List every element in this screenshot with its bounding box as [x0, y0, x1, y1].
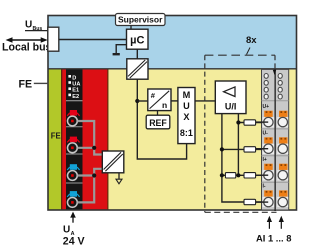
terminal separators left strip [66, 126, 83, 128]
svg-text:FE: FE [19, 79, 33, 91]
svg-text:Supervisor: Supervisor [118, 15, 163, 25]
gray strip group seams [262, 100, 289, 102]
terminal group I- [263, 184, 289, 208]
svg-text:E1: E1 [72, 88, 79, 94]
resistor R-I+b [244, 173, 256, 178]
gray strip seam [274, 69, 276, 210]
wire isolator2 to earth arrow [118, 173, 120, 180]
isolator 2 (supply isolation) [102, 151, 124, 173]
terminal 1.2 screw [68, 143, 78, 153]
A/D converter [148, 89, 171, 111]
svg-text:U: U [25, 20, 32, 31]
wire U- [222, 148, 263, 150]
gray strip small contacts col1 [264, 74, 268, 100]
ground stub of uC [116, 45, 126, 54]
wire I+ [222, 174, 263, 176]
right terminal strip (gray) [262, 69, 289, 210]
wire I- [244, 201, 263, 203]
terminal 1.1 clamp [67, 110, 79, 116]
wire isolator1 down [137, 79, 186, 159]
node I+ b [236, 173, 240, 177]
supervisor box [116, 14, 166, 26]
svg-text:D: D [72, 75, 76, 81]
terminal 2.2 clamp [67, 191, 79, 197]
terminal group I+ [263, 157, 289, 181]
resistor R-U- [244, 147, 256, 152]
svg-text:I+: I+ [263, 157, 267, 163]
U_Bus underline wire [25, 30, 49, 32]
svg-text:U-: U- [263, 130, 269, 136]
svg-text:REF: REF [149, 118, 167, 128]
resistor R-I- [244, 199, 256, 204]
FE strip (green) [48, 69, 61, 210]
gray strip small contacts col2 [278, 74, 282, 100]
svg-text:U+: U+ [263, 104, 270, 110]
svg-text:n: n [162, 100, 167, 110]
wire MUX to U/I [195, 100, 215, 102]
module body: analog section (yellow) [48, 69, 297, 210]
8x leader line [247, 48, 251, 55]
node sensor1 [92, 146, 96, 150]
wire tip I+ into terminal [256, 174, 269, 176]
8x dashed group box [205, 54, 275, 56]
module outline [48, 16, 297, 211]
wire terminal1.1 [78, 121, 95, 148]
svg-text:AI 1 ... 8: AI 1 ... 8 [256, 233, 291, 244]
resistor R-I+a [225, 173, 235, 178]
wire ADC to MUX [171, 100, 178, 102]
FE leader line [34, 82, 49, 84]
terminal 1.2 clamp [67, 137, 79, 143]
LED E1 [68, 87, 71, 90]
wire U+ [238, 122, 262, 124]
green/red boundary line [61, 69, 63, 210]
LED panel separator [66, 100, 83, 102]
LED E2 [68, 94, 71, 97]
LED D [68, 75, 71, 78]
svg-text:UA: UA [72, 82, 80, 88]
wire tip U+ into terminal [256, 121, 269, 123]
terminal 2.1 clamp [67, 164, 79, 170]
REF box [146, 115, 170, 129]
node sensor2 [92, 173, 96, 177]
svg-text:µC: µC [130, 35, 144, 47]
node U+ [236, 120, 240, 124]
red/yellow boundary line [107, 69, 109, 210]
terminal 1.1 screw [68, 116, 78, 126]
LED UA [68, 81, 71, 84]
local bus arrow [9, 39, 45, 41]
wire terminal2.1 to isolator2 [78, 169, 103, 176]
dashed line arrow mark [273, 70, 276, 75]
module body: bus section (blue) [48, 16, 297, 69]
UA supply arrow [72, 217, 74, 223]
isolator 1 (electrical isolation) [127, 59, 148, 79]
wire ADC to REF [157, 111, 159, 116]
AI input arrow 1 [268, 222, 270, 229]
AI input arrow 2 [280, 222, 282, 229]
node ADC branch [135, 99, 139, 103]
MUX 8:1 [178, 88, 195, 144]
terminal 2.2 screw [68, 198, 78, 208]
svg-text:8x: 8x [246, 35, 257, 46]
wire U/I right leg down [237, 114, 239, 176]
node I+ a [220, 173, 224, 177]
svg-text:E2: E2 [72, 94, 79, 100]
wire node to ADC [137, 100, 148, 102]
resistor R-U+ [244, 120, 256, 125]
op uC U1 [127, 29, 149, 49]
svg-text:8:1: 8:1 [180, 128, 193, 138]
wire U/I left leg down [222, 114, 244, 202]
wire tip I- into terminal [256, 201, 269, 203]
wire local bus to uC [59, 39, 127, 41]
svg-text:24 V: 24 V [63, 236, 85, 247]
svg-text:U: U [183, 101, 190, 111]
wire tip U- into terminal [256, 148, 269, 150]
svg-text:Local bus: Local bus [2, 42, 52, 54]
terminal group U+ [263, 104, 289, 128]
wire terminal2.2 [78, 176, 95, 203]
earth arrow [116, 179, 122, 184]
svg-text:U: U [63, 225, 70, 236]
8x box right edge through terminal strip [274, 69, 276, 211]
svg-text:X: X [183, 112, 190, 122]
amplifier U/I [215, 81, 246, 114]
svg-text:U/I: U/I [225, 102, 237, 112]
terminal strip left (black) [66, 69, 83, 210]
terminal group U- [263, 130, 289, 154]
terminal 2.1 screw [68, 171, 78, 181]
wire supervisor to uC [130, 26, 132, 31]
svg-text:M: M [183, 90, 191, 100]
UA power strip (red) [61, 69, 108, 210]
wire terminal1.2 to isolator2 [78, 148, 103, 155]
blue/yellow boundary [48, 68, 297, 70]
local bus connector [48, 27, 59, 51]
node U- [220, 147, 224, 151]
svg-text:I-: I- [263, 184, 266, 190]
svg-text:FE: FE [51, 132, 61, 141]
wire uC to isolator1 [136, 49, 138, 59]
